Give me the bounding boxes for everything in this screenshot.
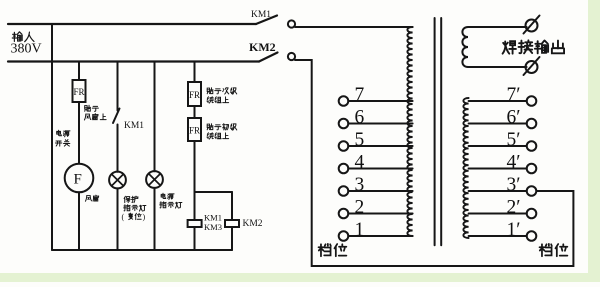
- wire lamp1 to bottom bus: [117, 188, 119, 250]
- wire tap 6: [348, 123, 412, 125]
- tap 6 terminal: [339, 119, 349, 129]
- label input 输入: [12, 32, 22, 42]
- label 电源指示灯: [161, 193, 165, 198]
- wire fan to bottom bus: [78, 192, 80, 250]
- svg-text:KM1: KM1: [251, 10, 271, 20]
- wire bottom control bus: [52, 249, 232, 251]
- svg-text:7: 7: [355, 85, 365, 106]
- transformer T primary winding: [407, 27, 412, 236]
- svg-text:): ): [143, 213, 146, 222]
- svg-text:(: (: [122, 213, 125, 222]
- motor fan F: [65, 164, 94, 193]
- terminal welding output bottom: [526, 61, 538, 73]
- tap 5p terminal: [527, 141, 537, 151]
- node KM1 hinge circle: [288, 20, 295, 27]
- coil KM1 KM3: [188, 220, 202, 227]
- wire KM1KM3 coil to bus: [194, 227, 196, 250]
- wire tap 7p: [469, 100, 527, 102]
- tap 3p terminal: [527, 186, 537, 196]
- label 档位 right: [540, 244, 552, 256]
- label 焊接输出: [503, 41, 516, 53]
- terminal welding output top: [526, 20, 538, 32]
- svg-text:4: 4: [355, 152, 365, 173]
- tap 4 terminal: [339, 164, 349, 174]
- svg-text:FR: FR: [74, 87, 85, 97]
- label 风扇: [85, 196, 91, 202]
- svg-text:F: F: [74, 172, 82, 188]
- contact KM1 blade: [256, 16, 277, 25]
- tap 2p terminal: [527, 209, 537, 219]
- tap 2 terminal: [339, 209, 349, 219]
- wire KM1 contact branch upper: [117, 62, 119, 111]
- tap 6p terminal: [527, 119, 537, 129]
- green page band right: [588, 0, 600, 282]
- wire L2 second supply bus: [8, 60, 259, 62]
- svg-text:4′: 4′: [507, 152, 521, 173]
- wire tap 6p: [469, 123, 527, 125]
- svg-text:2: 2: [355, 197, 365, 218]
- tap 1p terminal: [527, 231, 537, 241]
- tap 7 terminal: [339, 96, 349, 106]
- wire FR2 to FR3: [194, 106, 196, 118]
- wire lamp2 to bottom bus: [154, 188, 156, 250]
- svg-text:KM2: KM2: [249, 40, 276, 54]
- wire coil node horizontal: [195, 191, 233, 193]
- svg-text:FR: FR: [189, 126, 200, 136]
- wire to KM1KM3 coil: [194, 192, 196, 220]
- tap 7p terminal: [527, 96, 537, 106]
- tap 3 terminal: [339, 186, 349, 196]
- svg-text:6: 6: [355, 107, 365, 128]
- wire tap 3p: [469, 190, 527, 192]
- svg-text:KM1: KM1: [124, 121, 144, 131]
- wire KM2 coil to bus: [231, 227, 233, 250]
- wire tap 2p: [469, 213, 527, 215]
- svg-text:2′: 2′: [507, 197, 521, 218]
- wire tap 1p: [469, 235, 527, 237]
- svg-text:5′: 5′: [507, 130, 521, 151]
- wire L1 top supply bus: [8, 23, 256, 25]
- wire KM1 to primary top: [295, 26, 413, 28]
- contact KM1 aux blade: [113, 109, 120, 124]
- relay FR contact FR3: [188, 118, 201, 141]
- lamp HL1 protection indicator: [109, 172, 126, 189]
- svg-text:KM1: KM1: [204, 213, 222, 223]
- wire lamp2 branch upper: [154, 62, 156, 172]
- svg-text:6′: 6′: [507, 107, 521, 128]
- svg-text:3: 3: [355, 175, 365, 196]
- wire to KM2 coil: [231, 192, 233, 220]
- svg-text:FR: FR: [189, 90, 200, 100]
- wire tap 5: [348, 145, 412, 147]
- svg-text:KM3: KM3: [204, 222, 222, 232]
- wire leftmost vertical: [51, 24, 53, 250]
- coil KM2: [225, 220, 239, 227]
- tap 5 terminal: [339, 141, 349, 151]
- wire KM2 to box left and bottom and right riser: [295, 60, 573, 266]
- relay FR contact FR2: [188, 82, 201, 106]
- wire tap 1: [348, 235, 412, 237]
- svg-text:1: 1: [355, 220, 365, 241]
- core lines: [435, 18, 442, 245]
- lamp HL2 power indicator: [146, 171, 163, 188]
- wire tap 4: [348, 168, 412, 170]
- label 贴于初级绕组上: [207, 124, 213, 130]
- svg-text:7′: 7′: [507, 85, 521, 106]
- label 贴于次级绕组上: [207, 88, 213, 94]
- transformer secondary tap winding: [463, 98, 468, 238]
- node KM2 hinge circle: [288, 53, 295, 60]
- wire FR1 to fan: [78, 102, 80, 164]
- wire FR pair branch upper: [194, 62, 196, 83]
- svg-text:1′: 1′: [507, 220, 521, 241]
- wire fan branch upper: [78, 62, 80, 81]
- wire FR3 down to coil node: [194, 141, 196, 192]
- tap 4p terminal: [527, 164, 537, 174]
- label 贴于 风扇上: [85, 105, 91, 111]
- svg-text:3′: 3′: [507, 175, 521, 196]
- svg-text:5: 5: [355, 130, 365, 151]
- wire tap 2: [348, 213, 412, 215]
- wire tap 5p: [469, 145, 527, 147]
- wire tap 7: [348, 100, 412, 102]
- svg-text:KM2: KM2: [243, 219, 263, 229]
- relay FR heater FR1: [73, 80, 86, 102]
- wire tap 3: [348, 190, 412, 192]
- wire KM1 to lamp1: [117, 125, 119, 172]
- transformer secondary welding winding: [462, 27, 526, 67]
- svg-text:380V: 380V: [11, 42, 42, 57]
- label 保护指示灯(复位): [124, 196, 130, 202]
- green page band bottom: [0, 273, 600, 282]
- label 电源开关: [57, 130, 62, 135]
- contact KM2 blade: [259, 53, 278, 62]
- wire tap 4p: [469, 168, 527, 170]
- label 档位 left: [319, 244, 331, 256]
- tap 1 terminal: [339, 231, 349, 241]
